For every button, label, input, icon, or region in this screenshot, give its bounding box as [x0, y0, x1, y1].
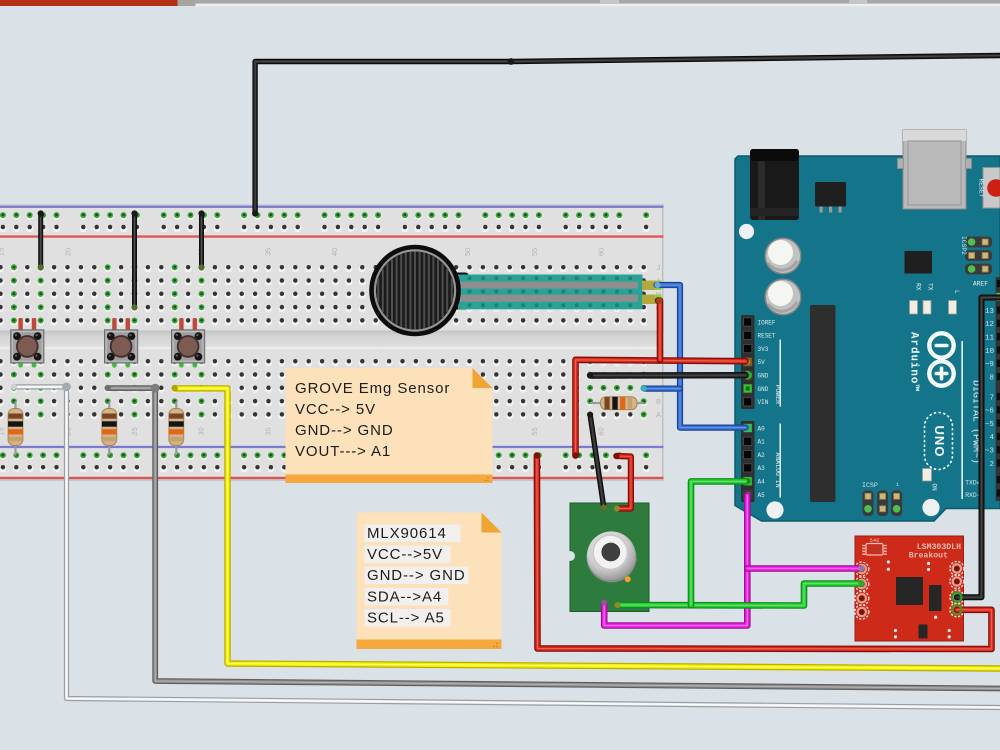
- wire black to MLX90614: [590, 415, 604, 508]
- voltage regulator: [815, 182, 846, 207]
- FSR force sensor tail: [447, 273, 662, 310]
- wire red rail to LSM303 VCC: [537, 456, 992, 650]
- USB connector: [903, 130, 966, 209]
- top toolbar red segment: [0, 0, 178, 6]
- svg-text:~3: ~3: [985, 448, 995, 456]
- top toolbar gray segment: [178, 0, 196, 6]
- svg-text:VCC--> 5V: VCC--> 5V: [295, 401, 376, 418]
- svg-text:A1: A1: [758, 439, 766, 446]
- svg-text:60: 60: [597, 427, 606, 435]
- svg-text:POWER: POWER: [774, 385, 781, 405]
- breadboard row letters: [656, 263, 662, 419]
- svg-text:UNO: UNO: [932, 426, 947, 458]
- wire blue FSR to A0: [657, 285, 746, 428]
- svg-text:AREF: AREF: [973, 281, 988, 288]
- jumper wire J3: [199, 214, 204, 268]
- wire bendpoint: [508, 58, 515, 65]
- svg-text:GND: GND: [758, 373, 769, 380]
- svg-text:40: 40: [330, 248, 339, 256]
- FSR force sensor puck: [369, 245, 461, 337]
- svg-text:VOUT---> A1: VOUT---> A1: [295, 443, 391, 460]
- svg-text:VIN: VIN: [758, 399, 769, 406]
- svg-text:GND: GND: [758, 386, 769, 393]
- svg-text:3V3: 3V3: [758, 346, 769, 353]
- pushbutton S2: [105, 318, 138, 368]
- svg-text:IOREF: IOREF: [758, 319, 776, 326]
- Arduino Uno board: [735, 130, 1000, 521]
- jumper wire J2: [132, 214, 137, 308]
- power rail stripes: [0, 206, 664, 208]
- svg-text:A0: A0: [758, 425, 766, 432]
- wire magenta to LSM303 SCL: [747, 565, 861, 572]
- resistor R3: [169, 401, 184, 455]
- Arduino POWER header: [741, 315, 781, 409]
- svg-text:55: 55: [530, 248, 539, 256]
- svg-text:SCL--> A5: SCL--> A5: [367, 610, 445, 627]
- Arduino DIGITAL header (right edge): [961, 277, 1000, 501]
- svg-text:8: 8: [989, 374, 994, 382]
- jumper wire J1: [38, 214, 43, 268]
- resistor R1: [8, 401, 23, 455]
- note: MLX90614: [357, 513, 502, 650]
- Arduino ANALOG IN header: [741, 421, 781, 502]
- svg-text:ON: ON: [931, 484, 938, 492]
- svg-text:4: 4: [989, 434, 994, 442]
- wire black to LSM303 GND: [957, 298, 1000, 598]
- connected (green) holes: [0, 212, 649, 460]
- svg-text:MLX90614: MLX90614: [367, 525, 447, 542]
- ICSP2 header (top right): [960, 236, 992, 274]
- wire green A4 to SDA: [691, 481, 746, 605]
- svg-text:A3: A3: [758, 465, 766, 472]
- svg-text:15: 15: [0, 248, 6, 256]
- Arduino logo: [929, 333, 953, 385]
- svg-text:35: 35: [263, 427, 272, 435]
- note: GROVE Emg Sensor: [286, 368, 493, 483]
- svg-text:RESET: RESET: [758, 333, 776, 340]
- svg-text:TX: TX: [927, 283, 934, 291]
- svg-text:7: 7: [989, 394, 994, 402]
- svg-text:20: 20: [63, 248, 72, 256]
- resistor R4 (horizontal): [590, 397, 644, 410]
- svg-text:GND--> GND: GND--> GND: [367, 567, 466, 584]
- svg-text:2: 2: [989, 461, 994, 469]
- svg-text:13: 13: [985, 308, 995, 316]
- svg-text:60: 60: [597, 248, 606, 256]
- wire blue stub: [644, 386, 680, 392]
- svg-text:J: J: [657, 263, 661, 272]
- svg-text:GND--> GND: GND--> GND: [295, 422, 394, 439]
- svg-text:RX: RX: [915, 283, 922, 291]
- svg-text:50: 50: [463, 248, 472, 256]
- svg-text:5V: 5V: [758, 359, 766, 366]
- pushbutton S1: [11, 318, 44, 368]
- capacitors: [765, 238, 801, 274]
- pushbutton S3: [172, 318, 205, 368]
- svg-text:12: 12: [985, 321, 995, 329]
- svg-text:RESET: RESET: [978, 179, 985, 198]
- svg-text:A: A: [656, 410, 661, 419]
- svg-text:GROVE Emg Sensor: GROVE Emg Sensor: [295, 380, 450, 397]
- RESET button (top right): [978, 168, 1000, 209]
- wire black GND to Arduino: [590, 372, 745, 379]
- svg-text:B: B: [656, 397, 661, 406]
- wire black GND top: [255, 56, 1000, 214]
- wire red rail to MLX VCC: [616, 456, 631, 509]
- ATmega IC: [810, 305, 836, 502]
- wire white: [14, 387, 1000, 708]
- svg-text:A5: A5: [758, 492, 766, 499]
- svg-text:55: 55: [530, 427, 539, 435]
- svg-text:ICSP: ICSP: [862, 482, 878, 489]
- svg-text:ICSP2: ICSP2: [960, 236, 967, 255]
- svg-text:SDA-->A4: SDA-->A4: [367, 589, 442, 606]
- wire green MLX SDA to LSM303: [618, 584, 862, 606]
- svg-text:25: 25: [130, 427, 139, 435]
- breadboard body: [0, 204, 664, 481]
- wire magenta A5 to MLX SCL: [604, 496, 747, 626]
- svg-text:~5: ~5: [985, 421, 995, 429]
- wire end caps: [11, 210, 962, 614]
- wire red 5V rail to Arduino: [576, 360, 746, 456]
- svg-text:A4: A4: [758, 479, 766, 486]
- svg-text:VCC-->5V: VCC-->5V: [367, 546, 443, 563]
- wire red FSR to 5V: [658, 301, 660, 360]
- ICSP header (bottom): [862, 482, 902, 516]
- wire yellow: [175, 388, 1000, 668]
- svg-text:15: 15: [0, 427, 6, 435]
- wire bendpoints: [62, 383, 71, 392]
- resistor R2: [102, 401, 117, 455]
- svg-text:~9: ~9: [985, 361, 995, 369]
- svg-text:L: L: [953, 290, 960, 294]
- LSM303DLH breakout board: [855, 536, 964, 641]
- wire gray: [108, 388, 1000, 688]
- power jack: [750, 149, 799, 220]
- svg-text:35: 35: [263, 248, 272, 256]
- breadboard column numbers: [0, 248, 606, 436]
- svg-text:~6: ~6: [985, 408, 995, 416]
- svg-text:540: 540: [870, 537, 880, 544]
- svg-text:Arduino™: Arduino™: [908, 332, 920, 392]
- svg-text:30: 30: [197, 427, 206, 435]
- svg-text:1: 1: [896, 482, 899, 488]
- svg-text:A2: A2: [758, 452, 766, 459]
- svg-text:Breakout: Breakout: [909, 551, 948, 561]
- svg-text:ANALOG IN: ANALOG IN: [774, 453, 781, 488]
